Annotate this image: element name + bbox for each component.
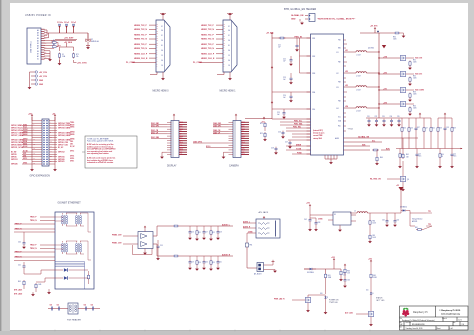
svg-text:R63: R63 (328, 275, 331, 277)
svg-text:C65: C65 (397, 220, 400, 222)
resistor R62 (415, 227, 423, 230)
transistor Q11 (356, 311, 374, 326)
HDMI1 signal wires (199, 25, 223, 62)
svg-text:MOSI: MOSI (23, 141, 28, 143)
svg-text:+1V8: +1V8 (383, 56, 387, 58)
svg-text:CN: CN (180, 131, 182, 133)
filter caps row L (188, 226, 222, 241)
svg-text:USB TYPE-C: USB TYPE-C (31, 40, 33, 53)
svg-text:+5V_SYS: +5V_SYS (370, 26, 378, 28)
feedback cluster A (401, 113, 435, 133)
pin numbers (34, 124, 36, 164)
camera net labels (193, 122, 221, 148)
svg-text:FB1: FB1 (250, 245, 253, 247)
node +5V rail (52, 114, 56, 121)
svg-text:D2: D2 (228, 26, 230, 28)
svg-text:VDD_1V8: VDD_1V8 (415, 58, 422, 60)
feedback bus wire (396, 131, 463, 149)
display net labels (151, 123, 159, 139)
svg-text:CN: CN (242, 131, 244, 133)
resistor R20 (279, 37, 286, 39)
wire SDA (344, 143, 371, 146)
voltage monitor U6 (410, 213, 426, 226)
svg-text:C32: C32 (375, 116, 378, 118)
transistor Q9 (370, 161, 409, 191)
svg-text:+5V_SYS: +5V_SYS (39, 76, 48, 78)
svg-text:+3V3: +3V3 (28, 114, 32, 116)
svg-text:CVBS: CVBS (248, 231, 252, 233)
svg-text:PL_CONN: PL_CONN (126, 62, 136, 64)
fan header J14 (257, 263, 264, 272)
resistor R2 CC2 (53, 43, 59, 48)
svg-text:C51: C51 (57, 305, 60, 307)
power flag camera (235, 114, 237, 121)
svg-text:CAM_DP1: CAM_DP1 (213, 125, 221, 128)
node PMIC_SCL (293, 121, 303, 155)
svg-text:R36: R36 (403, 128, 406, 130)
svg-text:R65: R65 (373, 275, 376, 277)
svg-text:BTB, GLOBAL_EN HEADER: BTB, GLOBAL_EN HEADER (284, 8, 316, 11)
TVS diode D7 (86, 33, 100, 49)
svg-text:CP: CP (180, 134, 182, 136)
svg-text:HDMI1_TX0_P: HDMI1_TX0_P (201, 44, 214, 46)
svg-text:C64: C64 (382, 220, 385, 222)
label POWER ON PWR LED (329, 299, 339, 303)
wire test points (423, 211, 432, 229)
svg-text:GP12: GP12 (70, 151, 74, 153)
capacitor C26 (278, 131, 285, 139)
wire VIN1 (272, 37, 311, 39)
svg-text:RT1: RT1 (76, 54, 79, 56)
display ground (160, 152, 167, 159)
svg-text:SH: SH (228, 50, 230, 52)
node +5V_SYS rail (266, 32, 274, 118)
svg-text:C1 100n: C1 100n (57, 22, 63, 24)
svg-text:LX3: LX3 (345, 85, 348, 87)
svg-text:10K: 10K (406, 157, 409, 159)
svg-text:USB/5V POWER IN: USB/5V POWER IN (25, 14, 51, 17)
resistor R41 (402, 138, 409, 159)
svg-text:GND: GND (291, 19, 296, 21)
svg-text:+5V_SYS: +5V_SYS (77, 63, 87, 65)
svg-text:C2 1uF: C2 1uF (64, 22, 69, 24)
resistor R66 (344, 268, 350, 275)
svg-text:SCL1: SCL1 (23, 127, 27, 129)
svg-text:3V3: 3V3 (180, 152, 183, 154)
rail right (54, 117, 56, 168)
svg-text:100n: 100n (418, 156, 421, 158)
svg-text:C35: C35 (397, 116, 400, 118)
diode D9 (304, 268, 316, 274)
svg-text:DISPLAY: DISPLAY (167, 165, 177, 168)
svg-text:C3 1uF: C3 1uF (71, 22, 76, 24)
svg-text:EN1: EN1 (338, 48, 341, 50)
svg-text:HDMI0_TX1_P: HDMI0_TX1_P (134, 34, 147, 36)
svg-text:330R: 330R (328, 277, 331, 279)
svg-text:FB1: FB1 (338, 40, 341, 42)
svg-text:SH: SH (228, 60, 230, 62)
svg-text:FB3: FB3 (338, 82, 341, 84)
lower cluster wires (280, 122, 311, 154)
svg-text:1 of 1: 1 of 1 (458, 320, 462, 322)
camera signal wires (193, 125, 229, 148)
capacitor C27 (285, 141, 292, 149)
svg-text:D9 PMEG: D9 PMEG (307, 272, 315, 274)
svg-text:GEN5: GEN5 (70, 134, 74, 136)
GPIO right wires (49, 121, 57, 164)
svg-text:SCL: SCL (372, 140, 375, 142)
svg-text:1uF: 1uF (283, 97, 286, 99)
svg-text:C52: C52 (84, 305, 87, 307)
GPIO left wires (22, 121, 42, 164)
power arrow (396, 185, 404, 208)
svg-text:+5V_EXT: +5V_EXT (64, 37, 74, 39)
svg-text:GPIO EXPANSION: GPIO EXPANSION (30, 175, 51, 178)
ground magjack (47, 289, 51, 294)
svg-text:C55: C55 (160, 245, 163, 247)
resistor R63 (324, 273, 331, 294)
node +5V_EXT (55, 37, 77, 44)
node +3V3 rail (28, 114, 33, 121)
svg-text:DSI1_DP1: DSI1_DP1 (151, 126, 159, 128)
svg-text:SH: SH (161, 40, 163, 42)
inductor L1 (344, 50, 380, 56)
svg-text:1K: 1K (441, 156, 443, 158)
svg-text:100n: 100n (453, 156, 456, 158)
svg-text:100K: 100K (393, 39, 397, 41)
copyright (439, 309, 461, 316)
svg-text:R39: R39 (453, 128, 456, 130)
svg-text:www.raspberrypi.org: www.raspberrypi.org (441, 314, 461, 316)
svg-text:R37: R37 (417, 127, 420, 129)
resistor R60 (369, 213, 376, 226)
svg-text:C33: C33 (382, 116, 385, 118)
svg-text:C25: C25 (277, 112, 280, 114)
svg-text:DP1: DP1 (242, 127, 245, 129)
svg-text:AUDIO_L: AUDIO_L (222, 223, 231, 226)
capacitor C40 (18, 232, 26, 249)
svg-text:ETH_LED1: ETH_LED1 (14, 290, 22, 292)
feedback cluster B (437, 113, 456, 133)
inductor L2 (344, 71, 380, 77)
resistor R30 (393, 32, 400, 41)
wire (370, 263, 372, 274)
svg-text:C58: C58 (219, 232, 222, 234)
svg-text:estimated on a 55x8.5x1 monito: estimated on a 55x8.5x1 monitor. (87, 161, 114, 164)
power flag (263, 216, 265, 219)
date row (399, 326, 453, 331)
svg-text:DSI1_CP: DSI1_CP (151, 132, 159, 134)
svg-text:+2V5: +2V5 (383, 102, 387, 104)
svg-text:VINL: VINL (312, 109, 315, 111)
svg-text:R32: R32 (413, 76, 416, 78)
svg-text:L5: L5 (354, 211, 356, 213)
buffer U5 (328, 212, 356, 225)
svg-text:+5V_BUS: +5V_BUS (64, 42, 73, 44)
capacitor C22 (283, 56, 293, 66)
svg-text:VIN2: VIN2 (312, 56, 315, 58)
svg-text:R30: R30 (393, 37, 396, 39)
svg-text:C38: C38 (446, 127, 449, 129)
svg-text:C28: C28 (271, 148, 274, 150)
svg-text:C60: C60 (205, 262, 208, 264)
svg-text:R66: R66 (347, 271, 350, 273)
svg-text:C41: C41 (18, 265, 21, 267)
svg-text:3V3: 3V3 (180, 154, 183, 156)
svg-text:CVBS: CVBS (318, 218, 322, 220)
svg-text:ETH_LED0: ETH_LED0 (14, 294, 22, 296)
svg-text:SH: SH (161, 30, 163, 32)
svg-text:HDMI1_TX1_P: HDMI1_TX1_P (201, 34, 214, 36)
capacitor C66 (343, 274, 350, 288)
svg-text:HDMI1_TX0_N: HDMI1_TX0_N (201, 48, 214, 50)
ground (338, 225, 342, 232)
inductor L3 (344, 85, 380, 91)
camera right pin stubs (241, 122, 249, 154)
svg-text:GP13: GP13 (23, 158, 27, 160)
svg-text:Q9: Q9 (407, 179, 409, 181)
svg-text:GEN2: GEN2 (23, 134, 27, 136)
svg-text:PWR_LED_R: PWR_LED_R (274, 298, 285, 300)
svg-text:1uF: 1uF (283, 79, 286, 81)
svg-text:R42: R42 (432, 128, 435, 130)
capacitor C1 (57, 22, 63, 33)
wire (48, 308, 100, 310)
resistor R46 (14, 283, 41, 296)
wire audio right (153, 244, 233, 256)
svg-text:100K: 100K (413, 62, 417, 64)
thermistor RT1 (72, 53, 79, 59)
svg-text:PWM1_OUT: PWM1_OUT (112, 242, 123, 244)
diode D8 (400, 206, 410, 214)
PoE transformer T5 (68, 303, 78, 314)
svg-text:LX1: LX1 (345, 50, 348, 52)
PMIC bottom pins to ground (325, 155, 337, 164)
svg-text:R46: R46 (39, 284, 42, 286)
svg-text:GP21: GP21 (70, 160, 74, 162)
branch Q7 (378, 87, 424, 101)
svg-text:C36: C36 (410, 128, 413, 130)
ferrite FB1 (245, 233, 252, 247)
svg-text:1 of 1: 1 of 1 (450, 328, 454, 330)
capacitor C62 (304, 218, 312, 231)
svg-text:R45: R45 (18, 281, 21, 283)
svg-text:VCOIN: VCOIN (296, 149, 302, 151)
ground left (30, 168, 34, 171)
svg-text:R55: R55 (212, 262, 215, 264)
svg-text:C34: C34 (390, 116, 393, 118)
magjack net labels (15, 217, 37, 259)
display right pin stubs (179, 122, 187, 154)
svg-text:GPIO12: GPIO12 (58, 152, 65, 154)
svg-text:GP6: GP6 (23, 156, 26, 158)
wire (297, 38, 311, 73)
GPIO left net labels (11, 124, 24, 165)
svg-text:B5: B5 (37, 43, 39, 45)
svg-text:Size: Size (399, 322, 402, 324)
ground op-amp (143, 249, 147, 255)
svg-text:SH: SH (161, 60, 163, 62)
svg-text:C43: C43 (418, 154, 421, 156)
svg-text:CP: CP (242, 134, 244, 136)
rail left (31, 117, 33, 168)
ground shield (31, 292, 35, 296)
svg-text:A/V JACK: A/V JACK (259, 211, 269, 214)
fuse F1 (58, 53, 65, 66)
svg-text:GPIO18_GEN1: GPIO18_GEN1 (58, 128, 70, 130)
svg-text:TP1: TP1 (428, 211, 431, 213)
GPIO left pin name labels (23, 123, 29, 164)
svg-text:C63: C63 (318, 222, 321, 224)
svg-text:C56: C56 (191, 232, 194, 234)
svg-text:DN1: DN1 (180, 124, 183, 126)
AV jack J7 (256, 219, 280, 238)
capacitor C25 (277, 109, 286, 119)
svg-text:GIGABIT ETHERNET: GIGABIT ETHERNET (58, 202, 82, 205)
svg-text:B4: B4 (37, 35, 39, 37)
svg-text:SH: SH (228, 30, 230, 32)
power flag right (261, 117, 265, 124)
capacitor C50 (50, 305, 53, 311)
transistor Q10 (292, 295, 326, 312)
wire VBUS bundle (44, 27, 88, 63)
svg-text:"ACT" LED: "ACT" LED (376, 299, 385, 302)
svg-text:C21: C21 (278, 45, 281, 47)
svg-text:100K: 100K (413, 94, 417, 96)
HDMI0 signal wires (132, 25, 156, 62)
svg-text:+3V3: +3V3 (383, 72, 387, 74)
capacitor C51 (57, 305, 60, 311)
transformer T2 (75, 213, 81, 226)
svg-text:Raspberry Pi: Raspberry Pi (413, 311, 428, 314)
PMIC right pin stubs (344, 40, 348, 131)
ground (48, 58, 52, 61)
svg-text:C40: C40 (18, 242, 21, 244)
svg-text:TXD0: TXD0 (70, 122, 74, 124)
inductor L5 (350, 211, 401, 214)
magjack internal wires (55, 213, 91, 260)
camera left pins (229, 122, 234, 154)
LED diode green (55, 268, 88, 272)
svg-text:LX1: LX1 (336, 52, 339, 54)
wire ETH leds (24, 270, 55, 282)
svg-text:10K: 10K (343, 275, 346, 277)
header J5 (305, 14, 315, 22)
transformer T3 (61, 241, 67, 254)
svg-text:R44: R44 (441, 154, 444, 156)
svg-text:HDMI1_TX1_N: HDMI1_TX1_N (201, 39, 214, 41)
svg-text:GEN0: GEN0 (23, 132, 27, 134)
svg-text:~TR14: ~TR14 (347, 128, 353, 130)
svg-text:SCL: SCL (180, 145, 183, 147)
svg-text:DN0: DN0 (180, 138, 183, 140)
micro HDMI connector J3 (156, 20, 170, 72)
GPIO right pin name labels (70, 122, 76, 162)
svg-text:C44: C44 (453, 154, 456, 156)
resistor R64 (339, 270, 346, 281)
svg-text:C22: C22 (283, 59, 286, 61)
svg-text:10K: 10K (347, 273, 350, 275)
svg-text:max operating load station.: max operating load station. (87, 152, 109, 155)
svg-text:S1: S1 (37, 59, 39, 61)
svg-text:D7: D7 (91, 39, 93, 41)
svg-text:DP0: DP0 (180, 140, 183, 142)
capacitor C63 (310, 218, 320, 231)
svg-text:B9: B9 (37, 38, 39, 40)
wire PWM0 (112, 234, 132, 236)
power arrow (368, 45, 386, 50)
svg-text:~NOTE BTB IS STL, GLOBAL_EN IS: ~NOTE BTB IS STL, GLOBAL_EN IS PT~ (317, 17, 356, 20)
svg-text:FB2: FB2 (338, 62, 341, 64)
svg-text:+5V_SYS: +5V_SYS (266, 33, 274, 35)
svg-text:D1: D1 (228, 35, 230, 37)
svg-text:R33: R33 (413, 92, 416, 94)
svg-text:GP16: GP16 (70, 156, 74, 158)
resistor R53 (173, 255, 180, 257)
svg-text:R2: R2 (53, 44, 55, 46)
svg-text:C26: C26 (278, 132, 281, 134)
svg-text:MICRO HDMI 1: MICRO HDMI 1 (220, 90, 237, 92)
svg-text:GLOBAL_EN: GLOBAL_EN (291, 14, 304, 17)
PMIC left pin stubs (307, 38, 311, 154)
svg-text:B6: B6 (37, 51, 39, 53)
svg-text:SCL: SCL (338, 117, 341, 119)
capacitor C3 (71, 22, 76, 33)
power flag (272, 260, 275, 262)
camera ground (222, 152, 229, 159)
svg-text:+3V3: +3V3 (368, 258, 372, 260)
svg-text:CK: CK (161, 55, 163, 57)
wire GLOBAL_EN (344, 135, 419, 138)
svg-text:R40: R40 (380, 157, 383, 159)
svg-text:ID_SC: ID_SC (58, 147, 64, 149)
HDMI1 net labels (193, 25, 215, 64)
display signal wires (151, 125, 167, 139)
svg-text:FB4: FB4 (338, 101, 341, 103)
header J2 pins (28, 71, 48, 90)
svg-text:LX2: LX2 (345, 71, 348, 73)
svg-text:D11: D11 (366, 290, 369, 292)
svg-text:HDMI1_TX2_N: HDMI1_TX2_N (201, 29, 214, 31)
HDMI1 bottom ground (217, 72, 232, 80)
svg-text:R41: R41 (406, 154, 409, 156)
svg-text:1uF: 1uF (278, 47, 281, 49)
svg-text:1uF: 1uF (283, 61, 286, 63)
svg-text:2.0: 2.0 (462, 324, 465, 326)
wire RUN (344, 148, 391, 151)
svg-text:GEN1: GEN1 (70, 127, 74, 129)
svg-text:D1: D1 (161, 35, 163, 37)
resistor R50 (173, 225, 180, 227)
svg-text:LX3: LX3 (336, 87, 339, 89)
svg-text:Q4 DMG: Q4 DMG (368, 48, 375, 50)
resistor R22 (260, 132, 267, 141)
ground (400, 33, 405, 38)
svg-text:D0: D0 (228, 45, 230, 47)
wire (264, 262, 276, 270)
note box (85, 136, 137, 168)
svg-text:LX2: LX2 (336, 73, 339, 75)
svg-text:L4 1uH: L4 1uH (356, 110, 360, 112)
HDMI0 net labels (126, 25, 148, 64)
page bottom tick marks (55, 330, 370, 331)
ground (300, 22, 304, 25)
svg-text:HDMI0_TX0_P: HDMI0_TX0_P (134, 44, 147, 46)
svg-text:D10: D10 (320, 293, 323, 295)
svg-text:TRD2_P: TRD2_P (30, 245, 37, 247)
svg-text:R31: R31 (413, 60, 416, 62)
power flag +3V3 (368, 258, 372, 262)
